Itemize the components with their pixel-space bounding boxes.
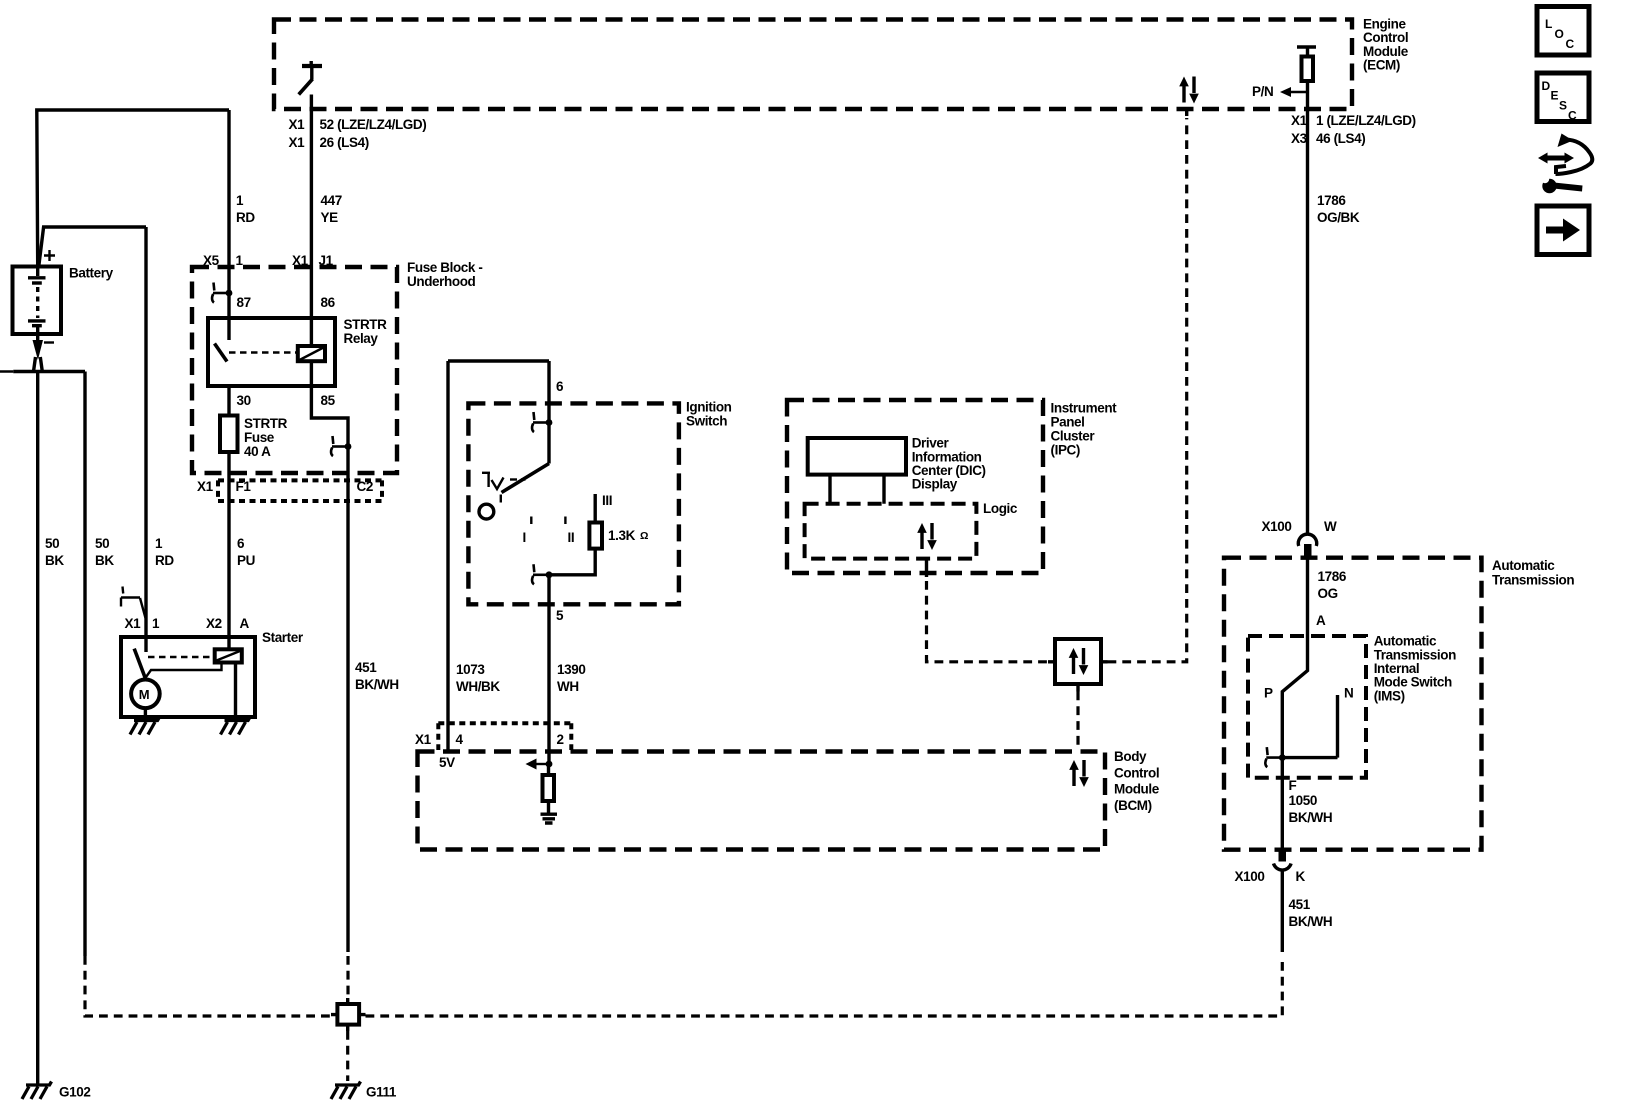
ignition switch label [686,400,732,429]
pin A label [1316,613,1326,628]
svg-text:BK: BK [95,553,114,568]
svg-text:F: F [1289,778,1297,793]
pin P label [1264,686,1273,701]
starter mechanical link dashed [148,656,214,658]
svg-text:Automatic: Automatic [1492,558,1555,573]
Logic box [805,501,1018,559]
svg-text:86: 86 [321,295,336,310]
DIC legs [830,475,884,504]
svg-text:Underhood: Underhood [407,274,476,289]
BCM box (Body Control Module) [418,752,1106,850]
svg-text:4: 4 [456,732,464,747]
pin F label [1289,778,1297,793]
svg-text:C: C [1566,37,1575,51]
svg-text:5: 5 [556,608,564,623]
svg-text:(ECM): (ECM) [1363,58,1400,73]
svg-text:STRTR: STRTR [344,317,388,332]
svg-text:(IPC): (IPC) [1051,443,1081,458]
IMS box [1248,636,1366,778]
wire label 1 RD (lower) [155,536,174,568]
svg-text:WH: WH [557,679,579,694]
wire label 1073 WH/BK [456,662,500,694]
starter pin labels X1 1 X2 A [125,616,250,631]
svg-text:52 (LZE/LZ4/LGD): 52 (LZE/LZ4/LGD) [320,117,427,132]
motor ground stub [144,708,147,717]
svg-text:X1: X1 [289,135,306,150]
wire 50 BK to G102 [36,372,39,1085]
svg-text:E: E [1551,89,1559,103]
wire 1 RD label (top) [236,193,255,225]
BCM input arrow at pin 2 [526,759,553,770]
wire label 50 BK (1) [45,536,64,568]
ground G102 [22,1082,90,1100]
G111 dashed stub to ground [346,1031,349,1081]
svg-text:Battery: Battery [69,266,114,281]
svg-text:X3: X3 [1291,131,1308,146]
ECM serial data arrows [1179,77,1199,104]
svg-text:BK/WH: BK/WH [1289,810,1333,825]
BCM ground (earth) [541,814,558,823]
wire label 1390 WH [557,662,585,694]
resistor branch wire [594,494,597,523]
svg-text:50: 50 [45,536,59,551]
relay switch arm [215,344,228,362]
svg-text:Cluster: Cluster [1051,429,1096,444]
wire label 451 BK/WH (left) [355,660,399,692]
ECM box (Engine Control Module) [274,20,1352,110]
wire 1786 OG inside transmission [1282,556,1307,758]
X100 K connector [1235,849,1306,884]
svg-text:X100: X100 [1262,519,1292,534]
svg-text:5V: 5V [439,755,455,770]
wire 1390 WH to BCM [547,575,550,764]
pin 5 label [556,608,564,623]
svg-text:OG: OG [1318,586,1338,601]
ECM pin labels X1 1 / X3 46 [1291,113,1416,146]
ignition switch box [468,403,679,604]
svg-text:X1: X1 [415,732,432,747]
ground under motor [130,717,160,735]
svg-text:X5: X5 [203,253,220,268]
svg-text:BK/WH: BK/WH [355,677,399,692]
serial data dashed junction to ECM [1108,108,1187,662]
svg-text:N: N [1344,686,1353,701]
svg-text:O: O [1555,27,1564,41]
svg-text:X100: X100 [1235,869,1265,884]
ignition lever [501,464,549,503]
relay 86 coil lower stub [310,361,313,386]
legend arrow box [1537,206,1589,255]
svg-text:D: D [1542,79,1551,93]
relay pin labels 30 85 [237,393,336,408]
svg-text:Display: Display [912,477,958,492]
starter connector hook X1 [121,587,146,619]
ACC position circle [479,504,494,519]
svg-text:BK/WH: BK/WH [1289,914,1333,929]
svg-text:Body: Body [1114,749,1147,764]
svg-text:C: C [1568,109,1577,123]
svg-text:1: 1 [152,616,160,631]
svg-text:WH/BK: WH/BK [456,679,500,694]
battery negative splice [0,334,85,381]
svg-text:J1: J1 [319,253,334,268]
svg-text:OG/BK: OG/BK [1317,210,1360,225]
P/N signal arrow [1252,84,1308,99]
fuse block underhood box [192,267,397,473]
svg-text:46 (LS4): 46 (LS4) [1316,131,1365,146]
svg-text:40 A: 40 A [244,444,271,459]
IMS label [1374,634,1456,704]
svg-text:Panel: Panel [1051,415,1085,430]
ECM internal resistor (P/N pull-up) [1297,47,1316,109]
svg-text:L: L [1545,17,1552,31]
wire 85 to C2 [311,386,348,952]
serial data junction box [1048,639,1108,692]
svg-text:YE: YE [321,210,339,225]
svg-text:(BCM): (BCM) [1114,798,1152,813]
svg-text:447: 447 [321,193,342,208]
ground G111 [331,1082,397,1100]
G111 dashed ground bus left [85,956,331,1016]
wire 1 RD to starter [144,227,147,652]
svg-text:1: 1 [236,253,244,268]
svg-text:RD: RD [236,210,255,225]
svg-text:BK: BK [45,553,64,568]
svg-text:1073: 1073 [456,662,485,677]
resistor to pin 5 [549,549,595,575]
starter switch arm [134,649,146,680]
BCM connector strip X1 4 2 [415,723,571,750]
ignition feed wire 1073 horizontal [448,359,549,362]
legend wrench icon [1538,134,1592,194]
fuse block connector strip X1 F1 C2 [197,479,382,501]
svg-text:6: 6 [556,379,564,394]
ground under solenoid [221,717,251,735]
svg-text:X1: X1 [197,479,214,494]
svg-text:A: A [1316,613,1326,628]
svg-text:X1: X1 [125,616,142,631]
battery feed wire 2 (to starter X1) [39,227,146,266]
wire 50 BK (2) solid part [83,372,86,957]
position labels I II III [523,493,613,545]
IPC label [1051,401,1118,458]
svg-text:P/N: P/N [1252,84,1273,99]
battery [13,250,114,343]
wire label 1050 BK/WH [1289,793,1333,825]
splice hook at 87 [212,283,232,303]
ECM label [1363,17,1409,73]
svg-text:M: M [139,687,149,702]
svg-text:II: II [568,530,575,545]
svg-text:Switch: Switch [686,414,727,429]
svg-text:451: 451 [355,660,377,675]
wire label 1786 OG/BK [1317,193,1360,225]
svg-text:50: 50 [95,536,109,551]
svg-text:26 (LS4): 26 (LS4) [320,135,369,150]
relay coil [298,346,325,361]
svg-text:P: P [1264,686,1273,701]
svg-text:Transmission: Transmission [1492,573,1574,588]
svg-text:Logic: Logic [983,501,1018,516]
wire label 50 BK (2) [95,536,114,568]
svg-text:X1: X1 [1291,113,1308,128]
DIC display box [808,438,906,475]
relay pin labels 87 86 [237,295,336,310]
position ticks I II [531,517,565,525]
svg-text:Relay: Relay [344,331,379,346]
svg-text:Starter: Starter [262,630,304,645]
svg-text:G111: G111 [366,1085,397,1100]
wire pin 6 into switch [547,361,550,464]
svg-text:Fuse: Fuse [244,430,275,445]
svg-text:F1: F1 [236,479,252,494]
svg-text:(IMS): (IMS) [1374,688,1405,703]
ECM internal switch (crank signal) [299,61,322,95]
G111 junction square [331,998,366,1031]
wire label 447 YE [321,193,342,225]
svg-text:III: III [602,493,612,508]
BCM serial arrows [1069,760,1089,787]
svg-text:X2: X2 [206,616,222,631]
svg-text:87: 87 [237,295,251,310]
svg-text:W: W [1324,519,1337,534]
5V label [439,755,455,770]
svg-text:Control: Control [1114,765,1159,780]
X100 W connector [1262,519,1338,557]
svg-text:30: 30 [237,393,251,408]
starter solenoid coil [215,649,242,662]
wire 1 RD into relay 87 [227,110,230,340]
IPC box (Instrument Panel Cluster) [787,400,1043,573]
svg-text:I: I [523,530,526,545]
pin N label [1344,686,1353,701]
starter box [121,630,304,717]
svg-text:451: 451 [1289,897,1311,912]
logic stub [925,559,928,577]
ECM pin labels X1 52 / X1 26 [289,117,427,150]
svg-text:85: 85 [321,393,336,408]
svg-text:G102: G102 [59,1085,90,1100]
key rotation marks [482,473,526,489]
svg-text:Fuse Block -: Fuse Block - [407,260,482,275]
fuse block label [407,260,482,289]
wire 451 BK/WH bottom [1281,870,1284,953]
automatic transmission box [1224,558,1482,850]
svg-text:RD: RD [155,553,174,568]
wire 1786 OG/BK ECM to X100 [1306,109,1309,534]
wire label 1786 OG [1318,569,1347,601]
splice hook at 85/C2 [331,436,351,456]
svg-text:Module: Module [1114,782,1160,797]
relay link dashed [229,351,296,353]
battery feed wire top (to relay 87) [37,110,229,266]
svg-text:1: 1 [155,536,163,551]
hook at pin 5 [532,564,552,584]
svg-text:X1: X1 [292,253,309,268]
wire 30 to fuse [227,386,230,416]
Logic serial arrows [917,523,937,550]
svg-text:S: S [1559,99,1567,113]
relay label [344,317,388,346]
svg-text:1786: 1786 [1318,569,1347,584]
BCM pulldown resistor [543,764,555,813]
automatic transmission label [1492,558,1574,588]
wire label 451 BK/WH (right) [1289,897,1333,929]
pin 6 label [556,379,564,394]
STRTR relay box [208,318,335,386]
wire label 6 PU [237,536,255,568]
starter motor [131,680,160,709]
STRTR fuse 40A [220,416,288,460]
svg-text:Instrument: Instrument [1051,401,1118,416]
wire 6 PU fuse to starter [227,452,230,650]
connector labels X5 1 X1 J1 [203,253,334,268]
svg-text:K: K [1296,869,1306,884]
BCM label [1114,749,1160,813]
svg-text:2: 2 [557,732,564,747]
hook at pin 6 [532,412,552,432]
svg-text:Ω: Ω [640,530,648,542]
svg-text:STRTR: STRTR [244,416,288,431]
serial data dashed logic to junction [927,581,1050,662]
G111 dashed from 451 wire [346,956,349,998]
solenoid to motor link [146,663,222,678]
svg-text:1786: 1786 [1317,193,1346,208]
G111 dashed ground bus right [366,957,1283,1016]
legend LOC box [1537,7,1589,56]
svg-text:C2: C2 [357,479,373,494]
IMS N contact line [1336,695,1339,758]
solenoid ground leg [234,663,237,718]
wire 1050 BK/WH [1281,758,1284,850]
svg-text:A: A [240,616,250,631]
legend DESC box [1537,73,1589,123]
resistor 1.3K [589,523,648,549]
hook at IMS P [1265,747,1285,767]
svg-text:X1: X1 [289,117,306,132]
svg-text:1: 1 [236,193,244,208]
svg-text:1050: 1050 [1289,793,1317,808]
wire 1073 WH/BK down to BCM [446,361,449,751]
svg-text:1 (LZE/LZ4/LGD): 1 (LZE/LZ4/LGD) [1316,113,1416,128]
svg-text:1.3K: 1.3K [608,528,636,543]
svg-text:Ignition: Ignition [686,400,732,415]
wire 447 YE from ECM switch to relay 86 [310,95,313,347]
svg-text:PU: PU [237,553,255,568]
IMS common bar [1282,756,1337,759]
svg-text:1390: 1390 [557,662,585,677]
svg-text:6: 6 [237,536,245,551]
serial data dashed junction to BCM [1076,692,1079,751]
DIC label [912,436,986,492]
